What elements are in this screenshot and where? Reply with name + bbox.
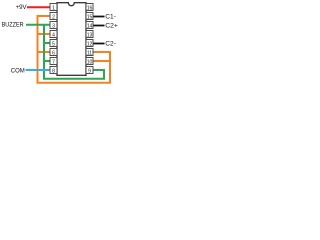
svg-text:C1-: C1-	[105, 14, 116, 21]
svg-text:C2+: C2+	[105, 23, 118, 30]
pin 14	[86, 22, 93, 30]
svg-text:C2-: C2-	[105, 41, 116, 48]
pin 12	[86, 40, 93, 48]
svg-text:BUZZER: BUZZER	[2, 21, 24, 28]
IC body U1 (16-pin DIP, notch at top)	[57, 3, 86, 76]
pin 4	[50, 31, 57, 39]
pin 1	[50, 4, 57, 12]
svg-text:9: 9	[88, 68, 91, 74]
pin 6	[50, 49, 57, 57]
svg-text:10: 10	[87, 59, 93, 65]
pin 11	[86, 49, 93, 57]
wire green net: BUZZER to pin3, left riser, bottom bus, right riser to pin 9	[26, 25, 104, 79]
svg-text:14: 14	[87, 23, 93, 29]
pin 9	[86, 67, 93, 75]
wire pin 15 to C1- (black)	[93, 16, 105, 18]
wire COM to pin 8 (cyan)	[26, 69, 51, 71]
pin 5	[50, 40, 57, 48]
svg-text:4: 4	[52, 32, 55, 38]
svg-text:11: 11	[87, 50, 92, 56]
pin 15	[86, 13, 93, 21]
svg-text:2: 2	[52, 14, 55, 20]
svg-text:13: 13	[87, 32, 93, 38]
svg-text:5: 5	[52, 41, 55, 47]
wire +9V to pin 1 (red)	[27, 6, 50, 8]
pin 13	[86, 31, 93, 39]
svg-text:8: 8	[52, 68, 55, 74]
pin 3	[50, 22, 57, 30]
svg-text:7: 7	[52, 59, 55, 65]
svg-text:16: 16	[87, 5, 93, 11]
pin 10	[86, 58, 93, 66]
svg-text:+9V: +9V	[16, 4, 27, 11]
pin 8	[50, 67, 57, 75]
pin 2	[50, 13, 57, 21]
svg-text:6: 6	[52, 50, 55, 56]
svg-text:3: 3	[52, 23, 55, 29]
pin 16	[86, 4, 93, 12]
pin 7	[50, 58, 57, 66]
svg-text:1: 1	[52, 5, 55, 11]
wire pin 14 to C2+ (black)	[93, 25, 105, 27]
wire pin 12 to C2- (black)	[93, 43, 105, 45]
svg-text:COM: COM	[11, 67, 25, 74]
svg-text:15: 15	[87, 14, 93, 20]
svg-text:12: 12	[87, 41, 93, 47]
wire orange net: pin2 left bus, bottom bus, right riser to pins 11,10	[38, 16, 111, 83]
